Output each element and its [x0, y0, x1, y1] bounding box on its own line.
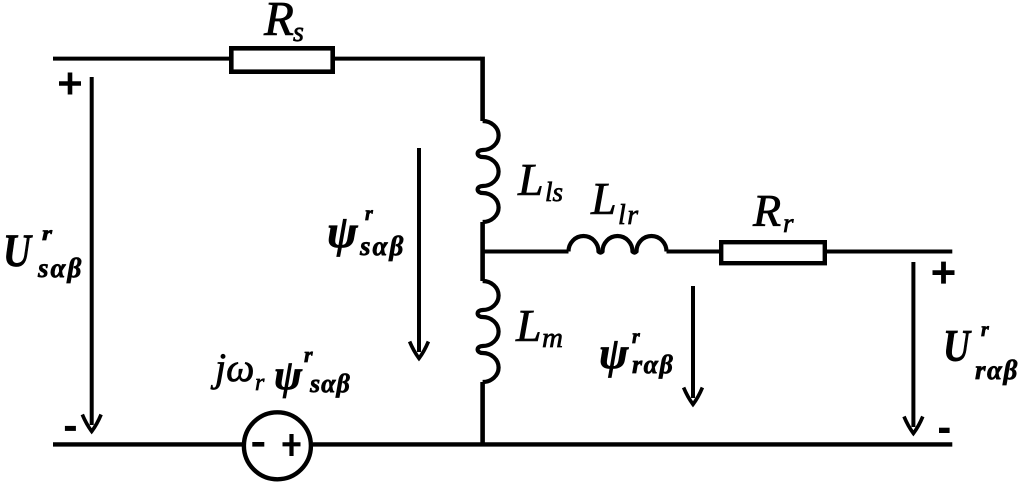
minus sign in source	[252, 442, 264, 447]
wire top-left horizontal	[53, 57, 229, 61]
wire top-right horizontal to corner and down	[335, 57, 481, 61]
wire middle horizontal from node to Llr	[481, 250, 569, 254]
label Lls	[517, 154, 563, 207]
svg-text:r: r	[255, 370, 265, 396]
plus sign top-right	[933, 262, 955, 284]
label psi_rab	[599, 326, 674, 379]
arrow Urab (right, downward)	[904, 262, 923, 433]
label Urab (right)	[943, 319, 1019, 385]
svg-text:L: L	[590, 173, 617, 224]
inductor Lm coil	[478, 281, 499, 382]
label Rr	[752, 185, 794, 238]
svg-text:m: m	[542, 322, 563, 354]
wire bottom-right	[313, 442, 952, 446]
label Usab (left)	[3, 221, 83, 283]
label Lm	[515, 300, 563, 354]
wire Rr to right end	[827, 250, 952, 254]
inductor Lls coil	[478, 121, 499, 222]
svg-text:ψ: ψ	[599, 329, 629, 378]
svg-text:ψ: ψ	[274, 353, 303, 399]
svg-text:U: U	[3, 225, 33, 277]
svg-text:sαβ: sαβ	[37, 253, 83, 283]
plus sign in source	[283, 434, 301, 456]
resistor Rr box	[721, 242, 825, 263]
svg-text:rαβ: rαβ	[975, 355, 1019, 385]
svg-text:U: U	[943, 321, 972, 371]
svg-text:r: r	[42, 221, 53, 245]
svg-text:r: r	[365, 203, 373, 225]
source circle jwr psi	[244, 412, 311, 479]
svg-text:R: R	[752, 185, 781, 236]
wire stator branch bottom segment	[480, 382, 485, 447]
svg-text:r: r	[304, 342, 313, 367]
plus sign top-left	[59, 73, 81, 95]
inductor Llr coil	[569, 236, 667, 253]
label Llr	[590, 173, 640, 231]
svg-text:r: r	[783, 208, 794, 238]
svg-text:ψ: ψ	[327, 206, 359, 257]
label jwr-psi_sab (source label)	[210, 342, 351, 399]
svg-text:L: L	[515, 300, 542, 351]
svg-text:ls: ls	[545, 177, 563, 207]
minus sign bottom-left	[65, 426, 76, 431]
minus sign bottom-right	[939, 428, 950, 433]
arrow psi_rab (downward)	[684, 286, 703, 404]
svg-text:jω: jω	[210, 345, 254, 390]
svg-text:sαβ: sαβ	[309, 369, 351, 398]
resistor Rs box	[231, 48, 332, 71]
wire bottom-left	[53, 442, 242, 446]
wire stator branch middle segment	[480, 222, 485, 281]
arrow Usab (left, downward)	[82, 77, 101, 431]
svg-text:rαβ: rαβ	[632, 350, 674, 379]
svg-text:lr: lr	[618, 200, 640, 231]
svg-text:sαβ: sαβ	[359, 231, 405, 261]
arrow psi_sab (middle, downward)	[410, 148, 429, 358]
svg-text:L: L	[517, 154, 544, 205]
label Rs	[263, 0, 304, 48]
svg-text:R: R	[263, 0, 294, 46]
label psi_sab	[327, 203, 405, 261]
wire Llr to Rr	[667, 250, 720, 254]
svg-text:r: r	[981, 319, 989, 341]
svg-text:r: r	[632, 326, 640, 348]
svg-text:s: s	[293, 17, 304, 48]
